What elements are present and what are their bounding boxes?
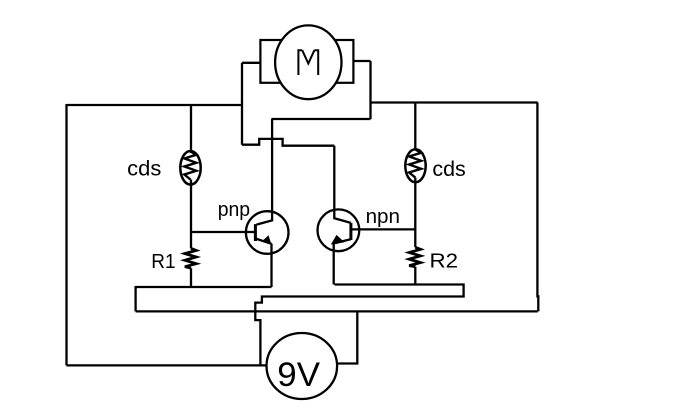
svg-text:9V: 9V xyxy=(277,356,320,394)
svg-text:pnp: pnp xyxy=(218,199,250,221)
svg-text:npn: npn xyxy=(366,206,400,228)
svg-text:R1: R1 xyxy=(151,250,175,273)
svg-text:cds: cds xyxy=(127,157,161,181)
svg-text:R2: R2 xyxy=(430,250,459,273)
svg-text:cds: cds xyxy=(432,157,465,181)
